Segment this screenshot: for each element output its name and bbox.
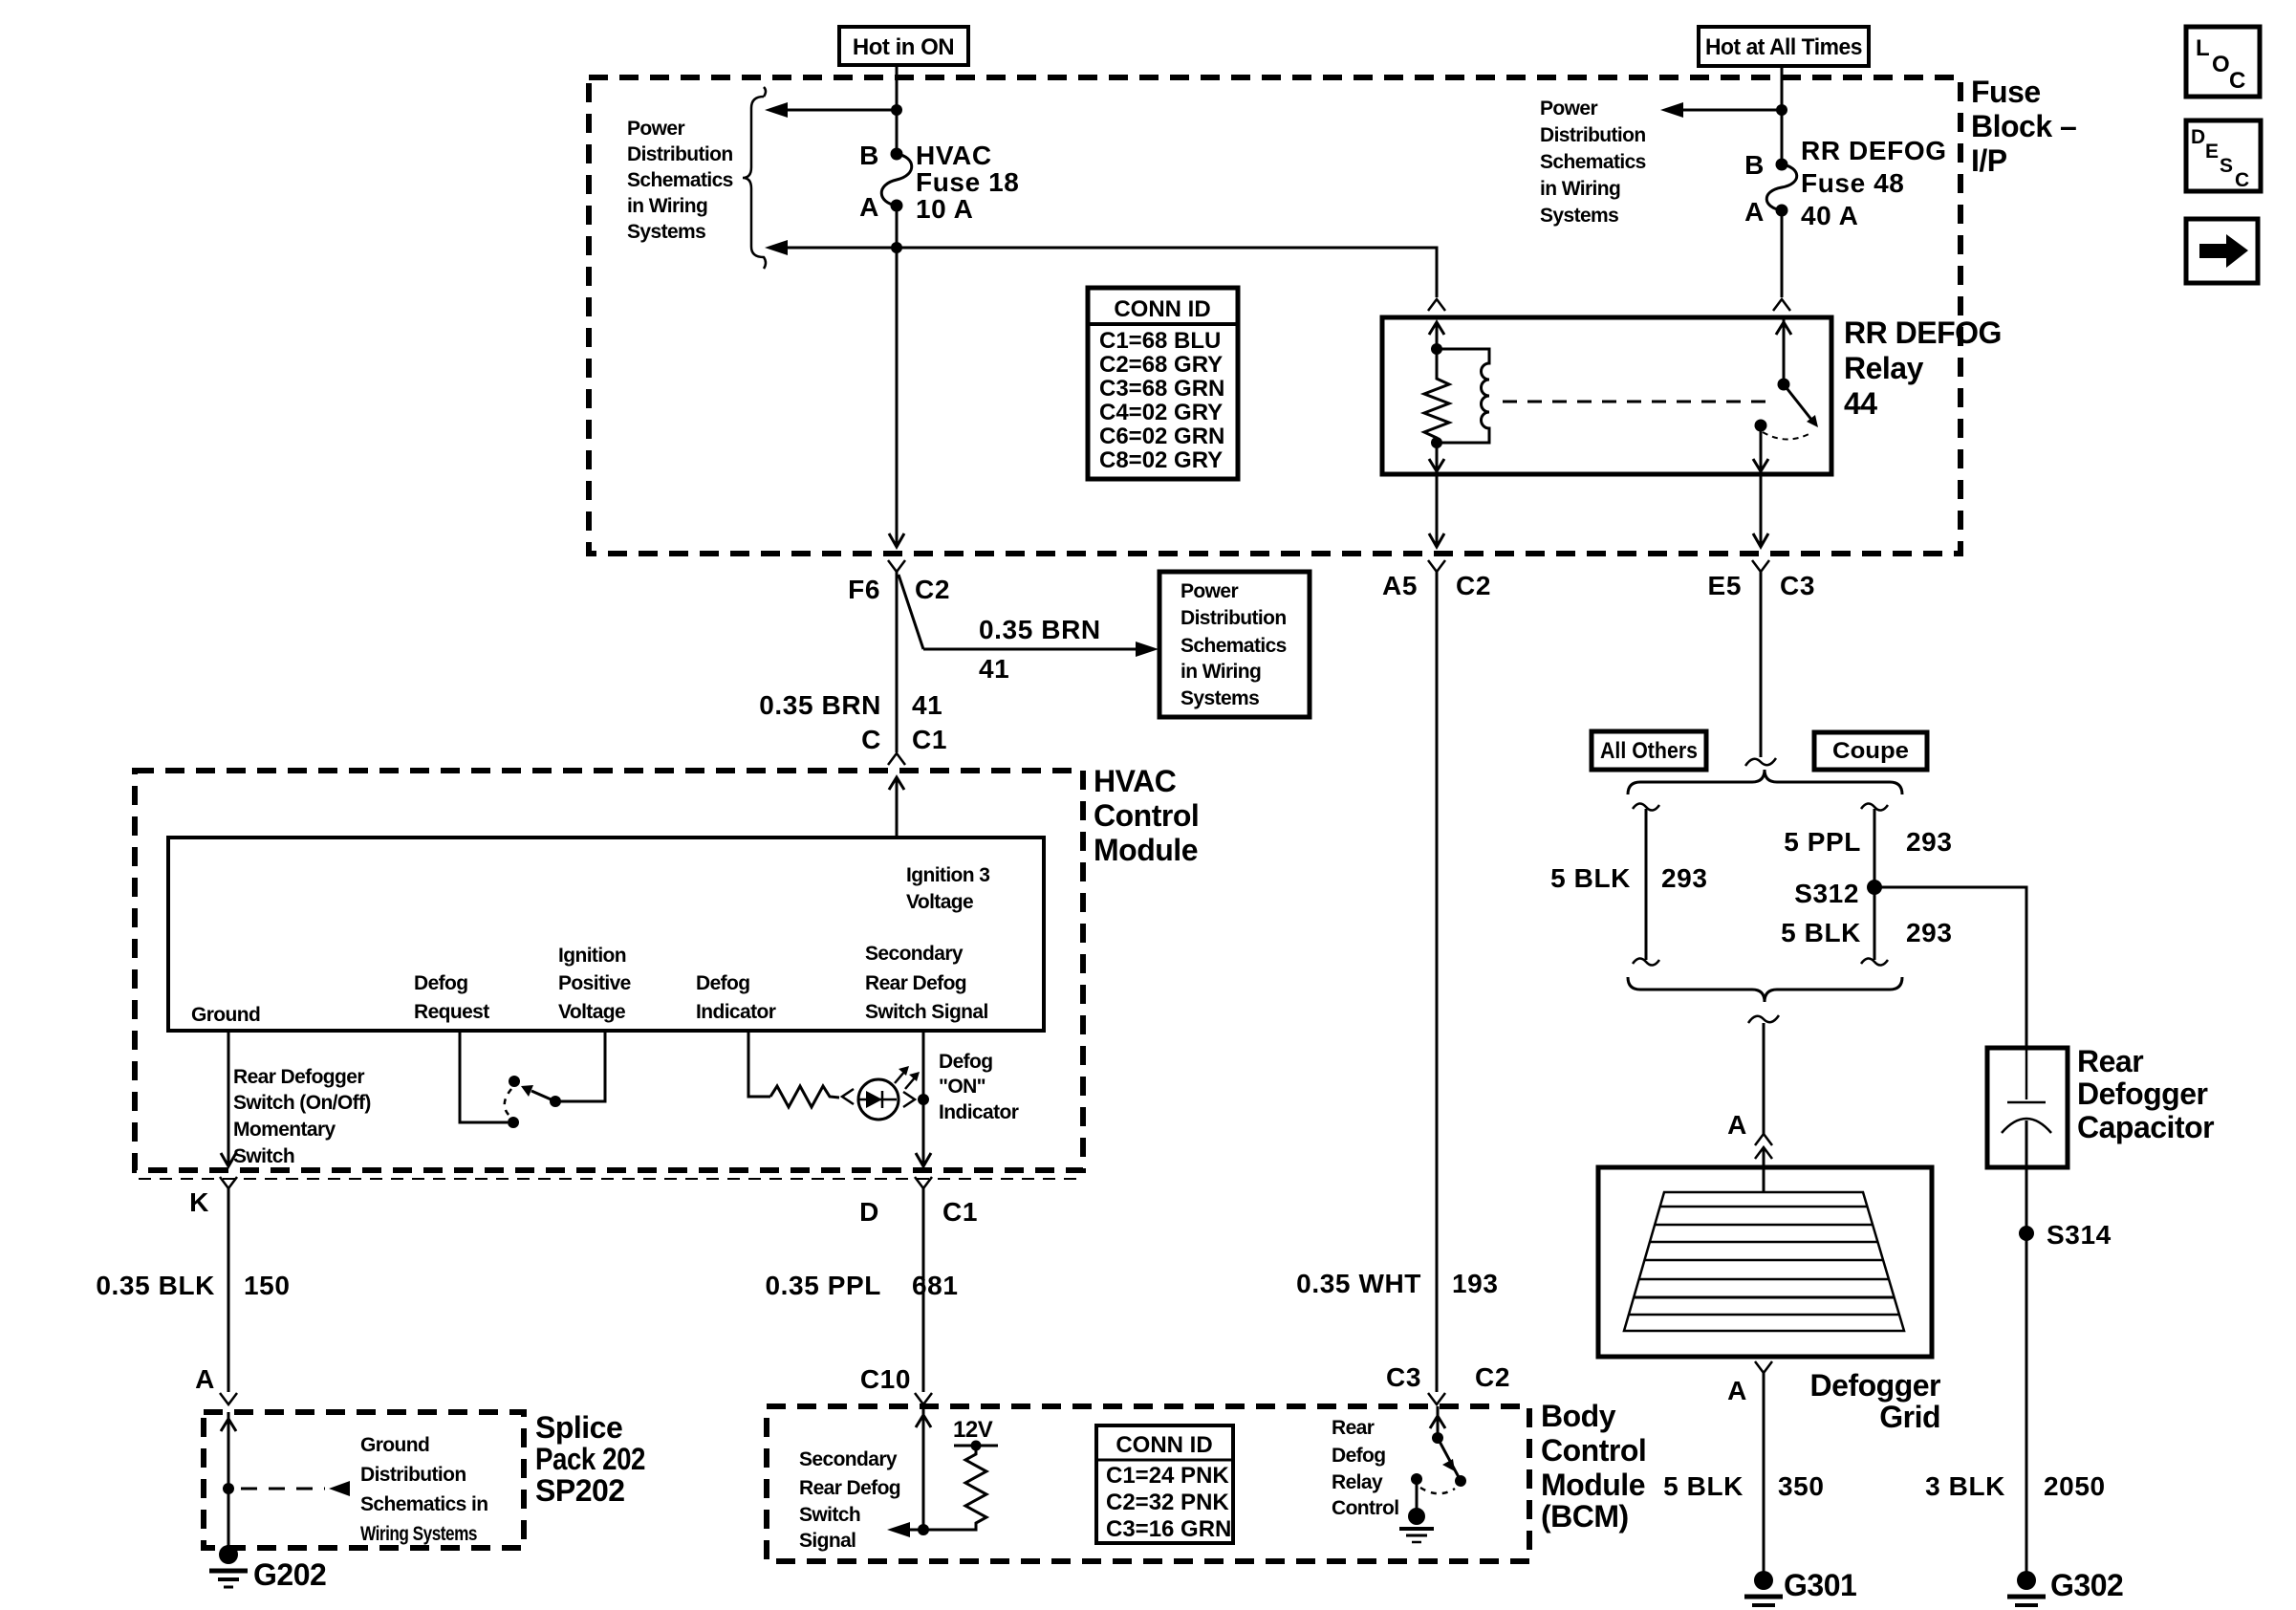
svg-text:C3: C3	[1386, 1362, 1421, 1392]
junction node BCM signal	[918, 1524, 929, 1535]
wire label 5 BLK 293 (coupe lower)	[1781, 918, 1952, 947]
wire A5 C2 to C3 C2	[1436, 572, 1439, 1392]
svg-text:L: L	[2196, 35, 2209, 61]
pin label Ignition 3 Voltage	[906, 864, 989, 913]
svg-text:Systems: Systems	[627, 221, 705, 243]
svg-text:5 BLK: 5 BLK	[1550, 863, 1631, 893]
svg-text:C1=68 BLU: C1=68 BLU	[1099, 328, 1221, 354]
svg-text:G202: G202	[253, 1557, 326, 1592]
splice S314	[2019, 1220, 2112, 1250]
svg-text:O: O	[2212, 52, 2229, 77]
relay resistor	[1424, 349, 1449, 443]
svg-text:Hot in ON: Hot in ON	[853, 34, 954, 60]
svg-text:E: E	[2205, 141, 2219, 163]
svg-text:Distribution: Distribution	[1540, 124, 1646, 146]
relay coil output arrow	[1429, 443, 1444, 471]
rear defogger capacitor box	[1987, 1048, 2068, 1167]
CONN ID table upper	[1088, 288, 1238, 479]
dashed reference line with arrow	[241, 1481, 350, 1496]
svg-text:C: C	[861, 725, 881, 754]
svg-text:Capacitor: Capacitor	[2077, 1110, 2214, 1144]
svg-text:Rear: Rear	[1332, 1417, 1375, 1439]
svg-text:5 BLK: 5 BLK	[1781, 918, 1861, 947]
svg-text:Ground: Ground	[360, 1434, 429, 1456]
svg-text:(BCM): (BCM)	[1541, 1499, 1629, 1534]
BCM relay control wire with up arrow	[1430, 1406, 1445, 1438]
svg-text:Systems: Systems	[1180, 687, 1259, 709]
svg-text:Power: Power	[1540, 98, 1597, 120]
wire label 5 PPL 293 (coupe)	[1784, 827, 1952, 857]
svg-text:A: A	[1744, 197, 1765, 227]
svg-text:CONN ID: CONN ID	[1114, 296, 1210, 322]
svg-text:Relay: Relay	[1844, 351, 1924, 385]
wire label 0.35 BRN 41	[759, 690, 942, 720]
relay throw contact	[1755, 420, 1767, 432]
svg-text:Power: Power	[627, 118, 684, 140]
label Defogger Grid	[1810, 1368, 1941, 1434]
svg-text:Rear Defog: Rear Defog	[865, 972, 966, 994]
svg-text:RR DEFOG: RR DEFOG	[1844, 315, 2002, 350]
svg-text:Request: Request	[414, 1001, 489, 1023]
LED circle	[858, 1079, 899, 1120]
wire across fuse block to relay	[897, 248, 1437, 297]
next-page arrow box	[2186, 219, 2258, 283]
note Power Distribution Schematics in Wiring Systems (right)	[1540, 98, 1646, 227]
svg-text:C2=68 GRY: C2=68 GRY	[1099, 352, 1223, 378]
secondary rear defog switch signal wire with arrow	[916, 1031, 931, 1166]
svg-text:C3=16 GRN: C3=16 GRN	[1106, 1516, 1231, 1542]
label box Hot in ON	[839, 27, 968, 65]
label RR DEFOG Relay 44	[1844, 315, 2002, 421]
svg-text:Signal: Signal	[799, 1530, 856, 1552]
svg-text:Defog: Defog	[696, 972, 750, 994]
svg-text:Module: Module	[1541, 1468, 1645, 1502]
DESC icon box	[2186, 120, 2261, 191]
BCM blade end node	[1455, 1475, 1466, 1487]
BCM internal left arrow	[887, 1522, 923, 1537]
capacitor symbol	[2002, 1048, 2051, 1133]
indicator resistor	[770, 1086, 839, 1107]
svg-text:293: 293	[1906, 918, 1953, 947]
LED flash arrows	[895, 1066, 920, 1089]
wire from Hot at All Times to fuse 48	[1781, 66, 1784, 164]
svg-text:Control: Control	[1332, 1497, 1398, 1519]
svg-text:Secondary: Secondary	[865, 943, 964, 965]
svg-text:Defog: Defog	[414, 972, 468, 994]
fuse F18 symbol	[881, 148, 912, 212]
svg-text:0.35 PPL: 0.35 PPL	[765, 1271, 881, 1300]
svg-text:150: 150	[244, 1271, 291, 1300]
svg-text:Momentary: Momentary	[233, 1119, 336, 1141]
svg-text:5 PPL: 5 PPL	[1784, 827, 1861, 857]
svg-text:E5: E5	[1708, 571, 1742, 600]
pin label Ignition Positive Voltage	[558, 945, 631, 1023]
svg-text:Schematics: Schematics	[1540, 151, 1646, 173]
svg-text:G302: G302	[2050, 1568, 2123, 1602]
svg-text:Ground: Ground	[191, 1004, 260, 1026]
fuse F48 symbol	[1766, 159, 1797, 217]
relay box RR DEFOG Relay 44	[1382, 317, 1831, 474]
svg-text:41: 41	[979, 654, 1009, 684]
svg-text:Grid: Grid	[1879, 1400, 1940, 1434]
svg-text:C3: C3	[1780, 571, 1815, 600]
wire label 5 BLK 293 (all others)	[1550, 863, 1707, 893]
svg-text:Ignition 3: Ignition 3	[906, 864, 989, 886]
connector A5 C2	[1382, 560, 1491, 600]
svg-text:Block –: Block –	[1971, 109, 2076, 143]
reference arrow to power distribution schematics (right)	[1660, 102, 1782, 118]
wire fuse 18 to F6	[896, 206, 899, 547]
svg-text:Defogger: Defogger	[1810, 1368, 1941, 1403]
svg-text:Indicator: Indicator	[696, 1001, 776, 1023]
svg-text:A: A	[1727, 1110, 1747, 1140]
note Rear Defogger Switch (On/Off) Momentary Switch	[233, 1066, 371, 1167]
svg-text:RR DEFOG: RR DEFOG	[1801, 136, 1947, 165]
svg-text:Rear: Rear	[2077, 1044, 2143, 1078]
svg-text:Switch: Switch	[799, 1504, 860, 1526]
momentary switch blade with arrow	[521, 1085, 555, 1101]
svg-text:Fuse 48: Fuse 48	[1801, 168, 1904, 198]
label HVAC Control Module	[1094, 764, 1199, 867]
wire F6 to C C1	[896, 572, 899, 752]
svg-text:Systems: Systems	[1540, 205, 1618, 227]
junction node	[1776, 104, 1787, 116]
connector C C1	[861, 725, 947, 765]
svg-text:Defog: Defog	[1332, 1445, 1386, 1467]
relay switch blade	[1784, 384, 1818, 427]
svg-text:C6=02 GRN: C6=02 GRN	[1099, 424, 1224, 449]
wire into grid box	[1763, 1147, 1765, 1193]
momentary switch travel dashed arc	[505, 1089, 511, 1117]
svg-text:A: A	[195, 1364, 215, 1394]
svg-text:0.35 BRN: 0.35 BRN	[759, 690, 881, 720]
svg-text:Defogger: Defogger	[2077, 1077, 2208, 1111]
connector A below grid	[1727, 1361, 1772, 1405]
ignition 3 voltage input arrow	[889, 777, 904, 838]
wire relay A5 out	[1429, 474, 1444, 547]
wire S312 to capacitor	[1880, 887, 2026, 1048]
arrowhead at F6 exit	[889, 533, 904, 547]
svg-text:41: 41	[912, 690, 942, 720]
svg-text:Rear Defog: Rear Defog	[799, 1477, 900, 1499]
svg-text:in Wiring: in Wiring	[1540, 178, 1620, 200]
branch wire to 0.35 BRN 41 arrow	[899, 575, 923, 649]
svg-text:CONN ID: CONN ID	[1116, 1432, 1212, 1458]
pin label Defog Request	[414, 972, 489, 1023]
top option brace	[1628, 770, 1902, 794]
svg-text:C1: C1	[942, 1197, 978, 1227]
defog request pin wire	[460, 1031, 508, 1122]
note Secondary Rear Defog Switch Signal	[799, 1448, 900, 1552]
svg-text:Indicator: Indicator	[939, 1101, 1019, 1123]
reference arrow to power distribution schematics (lower)	[765, 240, 897, 255]
svg-text:Control: Control	[1094, 798, 1199, 833]
HVAC inner box	[168, 838, 1044, 1031]
svg-text:Rear Defogger: Rear Defogger	[233, 1066, 364, 1088]
CONN ID table lower	[1096, 1425, 1233, 1543]
svg-text:Control: Control	[1541, 1433, 1646, 1468]
defogger grid element	[1624, 1192, 1904, 1331]
wire from Hot in ON to fuse 18	[896, 65, 899, 154]
svg-text:350: 350	[1778, 1471, 1825, 1501]
svg-text:Coupe: Coupe	[1832, 738, 1909, 764]
LED diode symbol	[859, 1091, 897, 1108]
svg-text:I/P: I/P	[1971, 143, 2007, 178]
svg-text:Voltage: Voltage	[906, 891, 973, 913]
pin label Secondary Rear Defog Switch Signal	[865, 943, 988, 1023]
connector F6 C2	[848, 560, 950, 604]
ground G202	[209, 1545, 326, 1592]
svg-text:Hot at All Times: Hot at All Times	[1705, 34, 1862, 60]
brace	[743, 87, 766, 269]
svg-text:Distribution: Distribution	[1180, 607, 1287, 629]
reference arrow 0.35 BRN 41	[923, 642, 1159, 657]
connector K	[189, 1177, 237, 1217]
svg-text:D: D	[2191, 126, 2205, 148]
svg-text:C3=68 GRN: C3=68 GRN	[1099, 376, 1224, 402]
relay switch common line with up arrow	[1776, 317, 1791, 384]
svg-text:K: K	[189, 1187, 209, 1217]
svg-text:A5: A5	[1382, 571, 1418, 600]
svg-text:C4=02 GRY: C4=02 GRY	[1099, 400, 1223, 425]
BCM dashed box	[767, 1406, 1529, 1561]
merge curl at wire end	[1745, 758, 1776, 766]
svg-text:A: A	[859, 192, 879, 222]
defog indicator pin wire	[748, 1031, 770, 1097]
svg-text:Power: Power	[1180, 580, 1238, 602]
svg-text:C2: C2	[1475, 1362, 1510, 1392]
junction node coil top	[1431, 343, 1442, 355]
svg-text:10 A: 10 A	[916, 194, 974, 224]
momentary switch bottom contact	[508, 1117, 519, 1128]
wire D C1 to C10	[922, 1188, 925, 1392]
svg-text:12V: 12V	[953, 1417, 993, 1443]
relay actuation dashed line	[1503, 401, 1770, 403]
svg-text:Schematics: Schematics	[627, 169, 733, 191]
svg-text:Secondary: Secondary	[799, 1448, 898, 1470]
thin dashed connector line below HVAC box	[139, 1178, 1080, 1180]
svg-text:44: 44	[1844, 386, 1877, 421]
relay coil input arrow	[1429, 322, 1444, 349]
svg-text:Splice: Splice	[535, 1410, 622, 1445]
wire grid to G301	[1763, 1373, 1765, 1572]
svg-text:0.35 BRN: 0.35 BRN	[979, 615, 1101, 644]
svg-text:Defog: Defog	[939, 1051, 993, 1073]
svg-text:Distribution: Distribution	[627, 143, 733, 165]
svg-text:C1: C1	[912, 725, 947, 754]
svg-text:293: 293	[1906, 827, 1953, 857]
svg-text:A: A	[1727, 1376, 1747, 1405]
connector chevron on relay switch feed	[1773, 299, 1790, 311]
svg-text:Switch Signal: Switch Signal	[865, 1001, 988, 1023]
momentary switch pivot	[550, 1096, 561, 1107]
svg-text:C: C	[2229, 68, 2245, 94]
BCM C10 wire with up arrow	[916, 1406, 931, 1530]
svg-text:Module: Module	[1094, 833, 1198, 867]
svg-text:40 A: 40 A	[1801, 201, 1859, 230]
right option bracket (Coupe path)	[1861, 803, 1888, 965]
svg-text:Fuse: Fuse	[1971, 75, 2041, 109]
connector chevron into splice pack	[220, 1393, 237, 1404]
junction node indicator output	[918, 1094, 929, 1105]
svg-text:293: 293	[1661, 863, 1708, 893]
ground G302	[2007, 1568, 2123, 1610]
connector E5 C3	[1708, 560, 1815, 600]
svg-text:681: 681	[912, 1271, 959, 1300]
svg-text:0.35 BLK: 0.35 BLK	[96, 1271, 215, 1300]
power distribution schematics reference box	[1159, 572, 1310, 717]
svg-text:in Wiring: in Wiring	[1180, 661, 1261, 683]
wire label 0.35 WHT 193	[1296, 1269, 1498, 1298]
junction node	[891, 104, 902, 116]
note Power Distribution Schematics in Wiring Systems (left)	[627, 118, 733, 243]
svg-text:in Wiring: in Wiring	[627, 195, 707, 217]
svg-text:SP202: SP202	[535, 1473, 625, 1508]
svg-text:G301: G301	[1784, 1568, 1856, 1602]
relay coil	[1437, 349, 1489, 443]
wire label 5 BLK 350	[1663, 1471, 1824, 1501]
svg-text:C: C	[2235, 169, 2249, 191]
wire fuse 48 to relay	[1781, 210, 1784, 297]
label Splice Pack 202 SP202	[535, 1410, 645, 1508]
relay switch travel dashed arc	[1763, 432, 1812, 440]
ground pin wire with arrow	[221, 1031, 236, 1166]
BCM contact node	[1411, 1473, 1422, 1485]
svg-text:Positive: Positive	[558, 972, 631, 994]
svg-text:S312: S312	[1794, 879, 1859, 908]
pull-up resistor	[923, 1446, 986, 1530]
splice S312	[1794, 879, 1882, 908]
label Fuse Block - I/P	[1971, 75, 2076, 178]
wire K to splice pack	[227, 1188, 230, 1392]
momentary switch top contact	[509, 1076, 520, 1087]
wire relay E5 out	[1753, 474, 1768, 547]
svg-text:Schematics in: Schematics in	[360, 1493, 487, 1515]
12V rail line	[954, 1445, 998, 1447]
svg-text:C10: C10	[860, 1364, 911, 1394]
bottom option brace	[1628, 977, 1902, 1002]
connector chevron left of LED	[842, 1089, 854, 1104]
svg-text:HVAC: HVAC	[916, 141, 992, 170]
svg-text:Switch (On/Off): Switch (On/Off)	[233, 1092, 371, 1114]
connector C3 C2	[1386, 1362, 1510, 1404]
svg-text:Relay: Relay	[1332, 1471, 1383, 1493]
junction node coil bottom	[1431, 437, 1442, 448]
note Rear Defog Relay Control	[1332, 1417, 1398, 1519]
defogger grid box	[1598, 1167, 1932, 1357]
junction node	[891, 242, 902, 253]
BCM switch travel dashed arc	[1420, 1488, 1455, 1493]
BCM switch blade with arrow	[1438, 1438, 1459, 1477]
svg-text:Switch: Switch	[233, 1145, 294, 1167]
connector C10	[860, 1364, 932, 1404]
svg-text:C8=02 GRY: C8=02 GRY	[1099, 447, 1223, 473]
svg-text:5 BLK: 5 BLK	[1663, 1471, 1744, 1501]
note Defog ON Indicator	[939, 1051, 1019, 1123]
svg-text:Schematics: Schematics	[1180, 635, 1287, 657]
HVAC control module dashed box	[135, 771, 1083, 1170]
svg-text:Wiring Systems: Wiring Systems	[360, 1523, 477, 1545]
wire E5 C3 down to option braces	[1760, 572, 1763, 757]
relay switch output arrow	[1753, 425, 1768, 471]
ground G301	[1744, 1568, 1856, 1610]
svg-text:C2: C2	[915, 575, 950, 604]
svg-text:HVAC: HVAC	[1094, 764, 1177, 798]
svg-text:2050: 2050	[2044, 1471, 2106, 1501]
svg-text:Distribution: Distribution	[360, 1464, 466, 1486]
svg-text:Voltage: Voltage	[558, 1001, 625, 1023]
connector chevron right of LED	[903, 1092, 915, 1107]
left option bracket (All Others path)	[1633, 803, 1659, 965]
label box Hot at All Times	[1699, 27, 1869, 66]
junction node splice	[223, 1483, 234, 1494]
svg-text:3 BLK: 3 BLK	[1925, 1471, 2005, 1501]
wire label 0.35 BLK 150	[96, 1271, 290, 1300]
svg-text:D: D	[859, 1197, 879, 1227]
label Rear Defogger Capacitor	[2077, 1044, 2214, 1144]
svg-text:C2=32 PNK: C2=32 PNK	[1106, 1490, 1229, 1515]
svg-text:S314: S314	[2047, 1220, 2112, 1250]
merge curl below braces	[1748, 1015, 1779, 1023]
LOC icon box	[2186, 27, 2260, 97]
wire label 0.35 PPL 681	[765, 1271, 958, 1300]
BCM internal ground	[1399, 1479, 1434, 1542]
wire capacitor to G302	[2025, 1120, 2028, 1572]
svg-text:B: B	[1744, 150, 1765, 180]
svg-text:Fuse 18: Fuse 18	[916, 167, 1019, 197]
svg-text:Body: Body	[1541, 1399, 1616, 1433]
svg-text:F6: F6	[848, 575, 880, 604]
splice pack dashed box	[204, 1412, 524, 1548]
wire label 3 BLK 2050	[1925, 1471, 2106, 1501]
label Body Control Module (BCM)	[1541, 1399, 1646, 1534]
svg-text:B: B	[859, 141, 879, 170]
label HVAC Fuse 18 10 A	[916, 141, 1019, 224]
svg-text:0.35 WHT: 0.35 WHT	[1296, 1269, 1421, 1298]
note Ground Distribution Schematics in Wiring Systems	[360, 1434, 487, 1545]
svg-text:C1=24 PNK: C1=24 PNK	[1106, 1463, 1229, 1489]
svg-text:All Others: All Others	[1600, 738, 1698, 764]
fuse block I/P dashed box	[589, 77, 1960, 554]
label box All Others	[1592, 731, 1706, 770]
svg-text:S: S	[2220, 155, 2233, 177]
relay switch pivot	[1778, 379, 1790, 391]
double connector chevrons	[1755, 1134, 1772, 1159]
connector D C1	[859, 1177, 978, 1227]
svg-text:Ignition: Ignition	[558, 945, 626, 967]
label box Coupe	[1814, 732, 1927, 770]
BCM switch pivot	[1432, 1432, 1443, 1444]
wire to defogger grid	[1763, 1023, 1765, 1134]
12V node	[971, 1441, 982, 1451]
reference arrow to power distribution schematics (left)	[765, 102, 897, 118]
svg-text:C2: C2	[1456, 571, 1491, 600]
svg-text:193: 193	[1452, 1269, 1499, 1298]
svg-text:"ON": "ON"	[939, 1076, 986, 1098]
ignition positive voltage pin wire	[555, 1031, 605, 1101]
pin label Defog Indicator	[696, 972, 776, 1023]
connector chevron on relay coil feed	[1428, 299, 1445, 311]
label RR DEFOG Fuse 48 40 A	[1801, 136, 1947, 230]
splice wire with up arrow	[221, 1412, 236, 1555]
svg-text:Pack 202: Pack 202	[535, 1442, 645, 1476]
